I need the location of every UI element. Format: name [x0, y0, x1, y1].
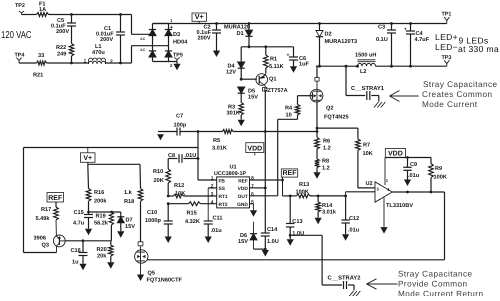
- wire - FB vertical: [198, 132, 217, 181]
- svg-text:SS: SS: [219, 186, 226, 192]
- ground arrow - R8 bottom: [313, 172, 320, 179]
- resistor R21 33: [33, 53, 47, 79]
- svg-text:10K: 10K: [175, 191, 185, 197]
- svg-text:R19: R19: [96, 214, 106, 220]
- svg-text:R1: R1: [270, 57, 277, 63]
- svg-text:120 VAC: 120 VAC: [1, 30, 32, 41]
- resistor R22 249: [56, 44, 74, 65]
- svg-text:Q2: Q2: [326, 106, 333, 112]
- test point TP1: [442, 12, 452, 24]
- svg-text:1: 1: [211, 176, 214, 182]
- svg-text:Q1: Q1: [269, 76, 276, 82]
- svg-text:3906: 3906: [34, 236, 46, 242]
- ground arrow - C10: [165, 237, 172, 244]
- svg-text:MURA120: MURA120: [224, 25, 250, 31]
- svg-text:REF: REF: [283, 170, 298, 177]
- test point TP4: [15, 53, 25, 64]
- svg-text:20k: 20k: [97, 252, 107, 259]
- wire - D6/C14 bottom: [254, 248, 267, 251]
- wire - RT1 line: [167, 195, 217, 198]
- svg-text:VDD: VDD: [388, 150, 403, 157]
- resistor R15 4.32K: [185, 202, 201, 225]
- ground arrow - C12: [342, 234, 349, 241]
- svg-text:R16: R16: [94, 190, 104, 196]
- wire - R16 bottom node: [87, 211, 121, 214]
- svg-text:at 330 ma: at 330 ma: [458, 44, 499, 54]
- resistor R19 56.2k: [94, 212, 114, 241]
- svg-text:.01U: .01U: [185, 153, 197, 159]
- svg-text:VDD: VDD: [247, 145, 262, 152]
- svg-text:Q3: Q3: [42, 242, 49, 248]
- svg-text:6: 6: [251, 192, 254, 198]
- svg-text:56.2k: 56.2k: [94, 220, 109, 227]
- svg-text:1: 1: [84, 59, 87, 65]
- wire - switch node / LED return rail: [316, 65, 447, 68]
- resistor R13 100K: [296, 182, 311, 198]
- svg-text:20K: 20K: [154, 178, 164, 184]
- resistor R1 5.11K: [264, 47, 284, 73]
- capacitor C7 100p: [174, 113, 187, 135]
- svg-text:.01u: .01u: [211, 228, 223, 234]
- svg-text:Stray Capacitance: Stray Capacitance: [423, 80, 498, 89]
- wire - gate drive from U1 OUT: [250, 119, 298, 196]
- svg-text:R14: R14: [322, 203, 333, 209]
- svg-text:D1: D1: [237, 31, 244, 37]
- fuse F1 1A: [37, 1, 49, 16]
- capacitor C_STRAY2: [322, 275, 360, 291]
- svg-text:3.01k: 3.01k: [322, 209, 337, 216]
- svg-text:3.01K: 3.01K: [212, 145, 227, 151]
- svg-text:R13: R13: [299, 182, 309, 188]
- ground arrow - U1 GND: [250, 210, 257, 217]
- svg-text:C3: C3: [378, 25, 385, 31]
- svg-text:C7: C7: [176, 113, 183, 119]
- resistor R3 301K: [227, 103, 244, 120]
- svg-text:REF: REF: [238, 178, 248, 184]
- svg-text:R10: R10: [153, 169, 163, 175]
- svg-text:V+: V+: [83, 155, 92, 162]
- svg-text:LED−: LED−: [435, 42, 458, 52]
- capacitor C13 1.0U: [286, 195, 304, 240]
- label Stray Capacitance Provide Common Mode Current Return: [398, 269, 483, 298]
- svg-text:5.49k: 5.49k: [36, 215, 51, 222]
- wire - after choke: [106, 62, 132, 65]
- svg-text:4.32K: 4.32K: [185, 219, 200, 225]
- wire - bottom AC line: [19, 62, 89, 64]
- zener D7 15V: [117, 212, 135, 231]
- wire - Q1 base: [240, 78, 257, 81]
- svg-text:R4: R4: [285, 106, 293, 112]
- wire - left feedback drop to Q3: [24, 148, 57, 253]
- capacitor C8 .01U: [168, 153, 199, 163]
- wire - U1 pin2 stub: [208, 187, 217, 189]
- node REF label (U1): [281, 169, 297, 196]
- resistor R16 200k: [86, 164, 107, 212]
- transistor Q2 FQT4N25: [310, 66, 348, 120]
- svg-text:15V: 15V: [248, 94, 258, 100]
- wire - AC jog into bridge (bottom): [132, 46, 169, 63]
- svg-text:5.11K: 5.11K: [269, 64, 284, 70]
- resistor R14 3.01k: [316, 196, 337, 218]
- ground arrow - Q5 source: [137, 275, 144, 282]
- svg-text:1.0U: 1.0U: [292, 231, 304, 237]
- svg-text:C10: C10: [147, 210, 157, 216]
- label LED+ / LED-: [435, 32, 458, 52]
- svg-text:R21: R21: [33, 73, 43, 79]
- svg-text:1.2: 1.2: [322, 166, 330, 172]
- package lead Q1 emitter: [263, 86, 288, 94]
- ground arrow - C11: [205, 237, 212, 244]
- svg-text:C8: C8: [168, 153, 175, 159]
- svg-text:200k: 200k: [94, 198, 107, 205]
- svg-text:TP4: TP4: [15, 53, 25, 59]
- svg-text:REF: REF: [48, 195, 63, 202]
- svg-text:TP2: TP2: [15, 3, 25, 9]
- svg-text:LED+: LED+: [435, 32, 458, 42]
- svg-text:D2: D2: [325, 32, 332, 38]
- svg-text:10K: 10K: [363, 151, 373, 157]
- wire - U1 pin7 VDD: [250, 187, 266, 189]
- svg-text:R8: R8: [322, 158, 329, 164]
- svg-text:1.k: 1.k: [124, 189, 133, 196]
- svg-text:4: 4: [211, 199, 214, 205]
- bridge rectifier D3 HD04: [149, 24, 188, 62]
- capacitor C2 0.1uF 200V: [197, 24, 222, 51]
- label 9 LEDs at 330 ma: [458, 36, 499, 54]
- svg-text:.01u: .01u: [408, 173, 420, 179]
- resistor R7 10K: [356, 128, 373, 188]
- wire - U2 V- to ground: [383, 197, 385, 227]
- svg-text:Mode Current Return: Mode Current Return: [398, 289, 483, 296]
- wire - current sense to R7: [317, 127, 358, 129]
- test point TP2: [15, 3, 25, 15]
- capacitor C10 1000p: [145, 204, 173, 237]
- node V+ label: [192, 12, 207, 23]
- resistor R17 5.49k: [36, 202, 59, 222]
- svg-text:R9: R9: [435, 166, 442, 172]
- capacitor C12 .01u: [341, 196, 359, 234]
- svg-text:100K: 100K: [296, 190, 309, 196]
- svg-text:R18: R18: [124, 199, 134, 205]
- svg-text:FB: FB: [219, 178, 226, 184]
- wire - bias top: [88, 163, 140, 165]
- capacitor C4 4.7uF: [404, 24, 430, 67]
- svg-text:15V: 15V: [125, 224, 135, 230]
- wire - U1 pin5 GND: [250, 204, 254, 211]
- arrow - stray capacitance provides: [367, 279, 398, 289]
- ground - C6: [290, 66, 297, 73]
- svg-text:4.7u: 4.7u: [73, 221, 85, 227]
- svg-text:MURA120T3: MURA120T3: [325, 39, 358, 45]
- label 120 VAC: [1, 30, 32, 41]
- svg-text:R22: R22: [56, 45, 66, 51]
- svg-text:R6: R6: [323, 139, 330, 145]
- svg-text:FZT757A: FZT757A: [264, 88, 288, 94]
- ground arrow - C9: [404, 180, 411, 187]
- svg-text:1000p: 1000p: [145, 218, 161, 224]
- svg-text:12V: 12V: [226, 69, 236, 75]
- inductor L1 470u common-mode choke: [84, 44, 114, 65]
- ground arrow - R14: [315, 218, 322, 225]
- svg-text:R17: R17: [41, 207, 51, 213]
- svg-text:R20: R20: [97, 247, 107, 253]
- label Stray Capacitance Creates Common Mode Current: [422, 80, 498, 109]
- ground arrow - sense line stub: [157, 134, 164, 140]
- ground - bridge negative: [173, 62, 180, 71]
- svg-text:R5: R5: [213, 138, 220, 144]
- ground arrow - C13: [287, 239, 294, 246]
- svg-text:R12: R12: [174, 183, 184, 189]
- capacitor C3 0.1U: [376, 24, 396, 67]
- wire - U2 V+ from VDD: [384, 158, 386, 186]
- wire - Q3 base node: [65, 239, 111, 242]
- resistor R8 1.2: [315, 158, 330, 172]
- svg-text:C16: C16: [71, 248, 81, 254]
- chassis ground - C_STRAY2: [349, 291, 360, 297]
- svg-text:7: 7: [251, 184, 254, 190]
- node VDD label (U1): [246, 143, 264, 156]
- svg-text:.01u: .01u: [348, 228, 360, 234]
- svg-text:1u: 1u: [72, 260, 79, 266]
- svg-text:RT2: RT2: [219, 202, 228, 208]
- svg-text:Stray Capacitance: Stray Capacitance: [398, 269, 473, 278]
- svg-text:UCC3809-1P: UCC3809-1P: [214, 171, 246, 177]
- svg-text:C15: C15: [74, 210, 84, 216]
- node V+ label (bias): [81, 148, 96, 165]
- svg-text:3: 3: [211, 192, 214, 198]
- arrow - stray capacitance creates: [390, 91, 419, 102]
- svg-text:HD04: HD04: [173, 39, 188, 45]
- svg-text:AC: AC: [140, 48, 146, 52]
- node VDD label (U2): [385, 149, 405, 158]
- ground arrow - R3 bottom: [238, 120, 245, 127]
- label bridge output 1: [170, 18, 173, 23]
- wire - RT2 line: [167, 202, 217, 205]
- wire - R7 to U2 input: [358, 187, 375, 189]
- svg-text:1A: 1A: [39, 7, 46, 13]
- ground arrow - D7: [117, 231, 124, 238]
- rail - mid feedback (FB net): [24, 147, 199, 149]
- svg-text:OUT: OUT: [238, 194, 248, 200]
- resistor R5 3.01K: [212, 130, 233, 152]
- label bridge output 2: [170, 63, 173, 68]
- svg-text:RT1: RT1: [219, 194, 228, 200]
- svg-text:C__STRAY2: C__STRAY2: [328, 275, 361, 282]
- svg-text:301K: 301K: [227, 111, 240, 117]
- capacitor C16 1u: [71, 241, 88, 266]
- svg-text:200V: 200V: [100, 37, 113, 43]
- svg-text:100p: 100p: [174, 123, 187, 129]
- resistor R10 20K: [153, 159, 171, 197]
- transistor Q1 FZT757A: [256, 73, 277, 86]
- ground arrow - C15: [85, 229, 92, 236]
- inductor L2 1500uH: [355, 52, 376, 75]
- svg-text:R7: R7: [363, 143, 370, 149]
- svg-text:FQT1N60CTF: FQT1N60CTF: [147, 278, 183, 284]
- capacitor C15 4.7u: [73, 210, 93, 229]
- op-amp U2 TL3310BV: [366, 178, 414, 209]
- svg-text:8: 8: [251, 176, 254, 182]
- resistor R6 1.2: [315, 132, 331, 160]
- wire - Q2 source: [316, 102, 319, 133]
- wire - top AC line from TP2/fuse: [22, 14, 132, 16]
- svg-text:1uF: 1uF: [299, 62, 310, 68]
- svg-text:1500 uH: 1500 uH: [355, 52, 376, 58]
- wire - U2 output feedback: [392, 191, 444, 260]
- node REF label (left): [47, 193, 64, 203]
- capacitor C5 0.1uF 200V: [51, 13, 76, 43]
- chassis ground - C_STRAY1: [374, 102, 385, 108]
- ground arrow - C14: [262, 250, 269, 257]
- svg-text:TP1: TP1: [442, 12, 452, 18]
- rail - bottom return: [147, 259, 444, 261]
- svg-text:15V: 15V: [238, 239, 248, 245]
- svg-text:200V: 200V: [198, 36, 211, 42]
- transistor Q5 FQT1N60CTF: [135, 242, 183, 284]
- svg-text:D3: D3: [173, 32, 180, 38]
- svg-text:2: 2: [110, 59, 113, 65]
- wire - V+ rail: [153, 22, 447, 25]
- svg-text:249: 249: [57, 52, 66, 58]
- svg-text:C12: C12: [349, 216, 359, 222]
- svg-text:1.2: 1.2: [323, 146, 331, 152]
- svg-text:+: +: [287, 53, 290, 59]
- svg-text:200V: 200V: [56, 29, 69, 35]
- wire - Q2 gate from R4: [298, 96, 313, 105]
- svg-text:VDD: VDD: [238, 186, 249, 192]
- svg-text:Creates Common: Creates Common: [422, 90, 492, 99]
- test point TP3: [442, 55, 452, 66]
- svg-text:C4: C4: [416, 31, 424, 37]
- diode D1 MURA120: [224, 24, 253, 47]
- svg-text:AC: AC: [140, 37, 146, 41]
- svg-text:R15: R15: [187, 211, 197, 217]
- svg-text:GND: GND: [237, 202, 248, 208]
- svg-text:100K: 100K: [434, 174, 447, 180]
- svg-text:FQT4N25: FQT4N25: [324, 114, 349, 120]
- capacitor C9 .01u: [403, 158, 419, 180]
- resistor R4 10: [285, 105, 300, 120]
- resistor R18 1.k: [124, 164, 143, 205]
- wire - U2 plus input: [346, 192, 375, 196]
- ground arrow - C16: [79, 264, 86, 271]
- test point TP5: [173, 53, 183, 62]
- wire - source sense line R5/C7: [158, 130, 317, 133]
- capacitor C1 0.01uF 200V: [96, 13, 125, 64]
- svg-text:Provide Common: Provide Common: [398, 279, 468, 288]
- svg-text:1.0U: 1.0U: [267, 239, 279, 245]
- op-amp U1 UCC3809-1P: [211, 165, 254, 209]
- svg-text:10: 10: [286, 113, 292, 119]
- svg-text:33: 33: [38, 53, 44, 59]
- zener D4 12V: [226, 47, 245, 79]
- svg-text:C14: C14: [267, 227, 278, 233]
- capacitor C_STRAY1: [346, 66, 385, 101]
- wire - IC ground to stray node: [290, 235, 322, 285]
- svg-text:L2: L2: [360, 69, 367, 75]
- svg-text:TP3: TP3: [442, 55, 452, 61]
- zener D6 15V: [238, 222, 257, 249]
- svg-text:TL3310BV: TL3310BV: [386, 203, 413, 209]
- wire - VDD to C9 R9: [385, 156, 431, 159]
- ground arrow - U2 V-: [380, 227, 387, 234]
- wire - bias node under D1: [241, 45, 293, 48]
- ground - C2: [213, 51, 220, 58]
- svg-text:C11: C11: [213, 216, 223, 222]
- capacitor C14 1.0U: [261, 188, 279, 249]
- svg-text:4.7uF: 4.7uF: [415, 37, 430, 43]
- svg-text:U1: U1: [230, 165, 237, 171]
- svg-text:Q5: Q5: [148, 271, 155, 277]
- wire - R18 to Q5 gate: [140, 201, 142, 242]
- diode D2 MURA120T3: [316, 24, 357, 67]
- svg-text:470u: 470u: [92, 50, 105, 56]
- transistor Q3 3906: [34, 220, 66, 253]
- capacitor C6 1uF: [287, 47, 310, 68]
- wire - AC jog into bridge (top): [132, 15, 153, 42]
- svg-text:C__STRAY1: C__STRAY1: [351, 85, 385, 92]
- zener D5 15V: [238, 87, 259, 103]
- svg-text:D7: D7: [126, 218, 133, 224]
- svg-text:V+: V+: [195, 12, 204, 21]
- svg-text:C9: C9: [410, 162, 417, 168]
- svg-text:C13: C13: [292, 219, 302, 225]
- wire - Q1 emitter to VDD: [264, 91, 267, 189]
- resistor R9 100K: [429, 158, 447, 193]
- wire - U1 pin8 REF: [250, 179, 284, 182]
- wire - R13 net: [283, 195, 348, 198]
- svg-text:+: +: [404, 27, 407, 33]
- capacitor C11 .01u: [204, 188, 223, 237]
- svg-text:+: +: [170, 25, 173, 31]
- ground arrow - R20: [107, 262, 114, 269]
- resistor R12 10K: [174, 183, 186, 198]
- svg-text:0.1U: 0.1U: [376, 37, 388, 43]
- resistor R20 20k: [97, 241, 114, 262]
- svg-text:2: 2: [211, 184, 214, 190]
- svg-text:Mode Current: Mode Current: [422, 100, 478, 109]
- svg-text:U2: U2: [366, 181, 373, 187]
